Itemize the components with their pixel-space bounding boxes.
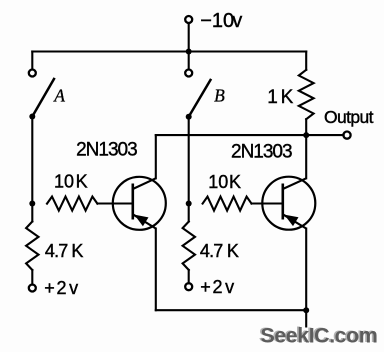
switch A blade [32,78,54,117]
wire: switch A column down to 4.7K [31,117,33,222]
svg-text:+2v: +2v [200,277,234,297]
resistor 4.7K (right) [183,222,195,271]
switch B hinge dot [186,114,192,120]
svg-text:2N1303: 2N1303 [231,141,292,162]
svg-text:4.7K: 4.7K [200,241,239,261]
wire: 1K top lead [305,52,307,70]
svg-text:+2v: +2v [44,278,78,298]
wire: Q2 collector riser [305,135,307,178]
wire: switch B column down to 4.7K [188,117,190,222]
svg-text:A: A [53,86,65,106]
junction: 10K right / column B [186,201,192,207]
junction: 10K left / column A [29,201,35,207]
junction: supply rail / -10v [186,49,192,55]
switch B blade [189,79,211,117]
wire: left +2v lead [31,270,33,285]
resistor 4.7K (left) [26,222,38,271]
switch A hinge dot [29,114,35,120]
resistor 10K (right) [203,197,252,211]
svg-text:2N1303: 2N1303 [76,140,137,161]
terminal +2v left [29,285,36,292]
Q2 emitter arrow [284,215,298,227]
Q1 emitter arrow [134,215,148,227]
terminal output [343,132,350,139]
resistor R 1K [299,70,314,119]
wire: collector rail [156,134,306,136]
svg-text:−10v: −10v [200,10,242,32]
resistor 10K (left) [47,197,97,211]
svg-text:10K: 10K [54,172,88,192]
wire: Q1 collector riser [155,135,157,178]
terminal switch A top [29,70,36,77]
wire: 1K bottom lead [305,119,307,135]
svg-text:Output: Output [324,107,374,127]
wire: Q2 emitter riser and bottom stub [305,229,307,327]
wire: Q2 base lead [252,202,283,204]
transistor Q1 (2N1303) [113,177,166,230]
wire: -10v terminal drop through rail to switch B [188,23,190,69]
wire: emitter rail [156,309,306,311]
svg-text:1K: 1K [267,87,293,108]
svg-text:B: B [214,86,225,106]
svg-text:10K: 10K [208,172,241,192]
wire: right +2v lead [188,270,190,283]
terminal +2v right [185,283,192,290]
terminal switch B top [185,70,192,77]
transistor Q2 (2N1303) [262,177,315,230]
terminal -10v [185,16,192,23]
svg-text:4.7K: 4.7K [45,241,84,261]
junction: collector rail / 1K / output [303,132,309,138]
wire: output lead [306,134,343,136]
svg-text:SeekIC.com: SeekIC.com [261,323,378,347]
wire: Q1 emitter riser [155,229,157,311]
wire: left drop to switch A [31,52,33,70]
wire: Q1 base lead [97,202,132,204]
junction: emitter rail / Q2 emitter [303,307,309,313]
wire: top supply rail [32,50,306,52]
